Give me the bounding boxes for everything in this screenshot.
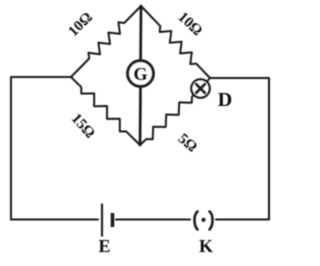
galvanometer G circle [128,61,154,87]
key K right parenthesis [210,212,213,230]
svg-text:15Ω: 15Ω [68,111,98,142]
svg-text:10Ω: 10Ω [174,9,205,39]
battery E plate long [101,204,103,237]
key K contact dot [201,218,205,222]
resistor 10ohm upper-right arm A to D [141,6,210,78]
svg-text:K: K [199,236,213,256]
resistor 15ohm lower-left arm B to C [71,77,140,145]
svg-text:D: D [218,89,232,111]
battery E plate short [111,213,115,227]
svg-text:E: E [98,236,110,256]
key K left parenthesis [195,212,198,230]
wire: galvanometer branch lower to C [139,87,142,146]
wire: stub from lamp to node D [207,78,210,82]
svg-text:10Ω: 10Ω [65,9,95,39]
resistor 10ohm upper-left arm A to B [71,6,141,77]
resistor 5ohm lower-right arm C to lamp [140,95,194,145]
lamp at node D (circle with cross) [191,79,210,98]
svg-text:G: G [133,64,147,84]
wire: left loop from node B to left edge, down and along bottom to battery [11,77,98,220]
wire: galvanometer branch upper from A [139,6,142,61]
wire: bottom between battery and key K [116,219,190,221]
svg-text:5Ω: 5Ω [175,131,200,156]
wire: bottom right, up right edge to node D [210,78,269,220]
